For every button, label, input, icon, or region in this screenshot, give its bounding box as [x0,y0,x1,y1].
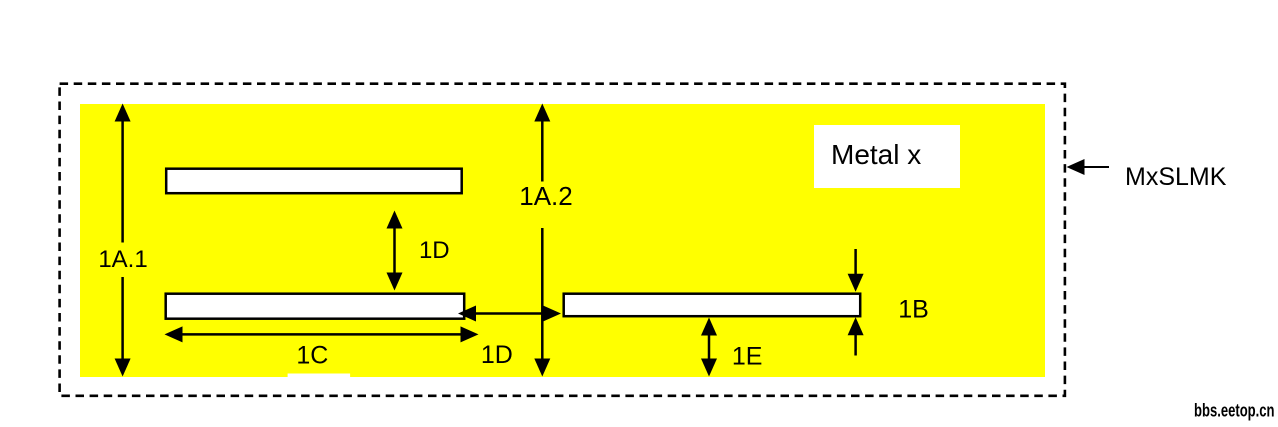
metal shape rect1 (top) [166,169,462,194]
svg-text:MxSLMK: MxSLMK [1125,163,1227,191]
yellow metal-x background region [80,104,1045,377]
dimension arrow 1C (horizontal, under rect2) [165,326,479,342]
dimension arrow 1D vertical (between rect1 and rect2) [387,211,403,291]
svg-text:1E: 1E [732,343,763,371]
dashed boundary MxSLMK marker layer [60,84,1065,396]
svg-text:1B: 1B [898,296,929,324]
metal shape rect2 (bottom-left) [166,294,465,319]
Metal x white label box [814,125,960,188]
white notch under 1C label [288,374,351,379]
svg-text:1C: 1C [296,342,328,370]
metal shape rect3 (bottom-right) [564,294,861,317]
dimension arrow 1B upper (pointing down at rect3 top) [848,249,864,292]
svg-text:1D: 1D [419,237,450,264]
callout arrow MxSLMK (pointing left at dashed boundary) [1067,159,1110,175]
svg-text:bbs.eetop.cn: bbs.eetop.cn [1194,401,1275,421]
svg-text:1A.2: 1A.2 [519,181,573,211]
svg-text:1D: 1D [481,341,513,369]
svg-text:1A.1: 1A.1 [98,246,147,273]
dimension arrow 1A.1 (vertical, full height) [115,104,131,377]
dimension arrow 1A.2 (vertical, full height) [534,104,550,377]
dimension arrow 1E (vertical, under rect3) [701,318,717,377]
dimension arrow 1B lower (pointing up at rect3 bottom) [848,317,864,355]
svg-text:Metal x: Metal x [831,139,921,170]
dimension arrow 1D horizontal (between rect2 and rect3) [458,306,561,322]
